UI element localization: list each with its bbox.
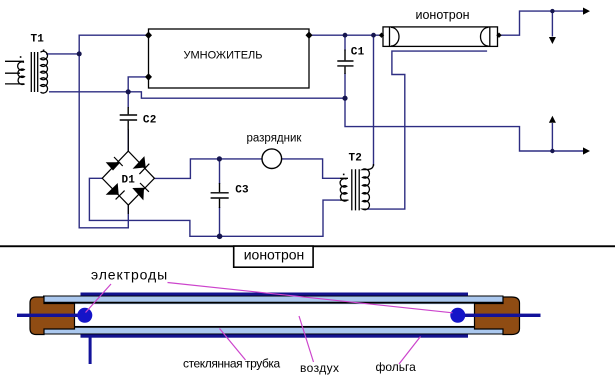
svg-text:воздух: воздух bbox=[300, 361, 339, 375]
svg-text:T1: T1 bbox=[31, 33, 45, 45]
svg-text:электроды: электроды bbox=[91, 266, 168, 282]
svg-text:C2: C2 bbox=[143, 115, 157, 127]
svg-text:УМНОЖИТЕЛЬ: УМНОЖИТЕЛЬ bbox=[184, 50, 263, 62]
svg-text:стеклянная трубка: стеклянная трубка bbox=[183, 357, 281, 371]
svg-text:D1: D1 bbox=[122, 175, 136, 187]
svg-text:ионотрон: ионотрон bbox=[244, 247, 305, 263]
svg-text:C1: C1 bbox=[351, 46, 365, 58]
svg-text:фольга: фольга bbox=[376, 360, 417, 374]
svg-text:T2: T2 bbox=[349, 153, 363, 165]
svg-text:разрядник: разрядник bbox=[247, 132, 303, 144]
svg-text:C3: C3 bbox=[235, 185, 249, 197]
svg-text:ионотрон: ионотрон bbox=[416, 8, 470, 22]
